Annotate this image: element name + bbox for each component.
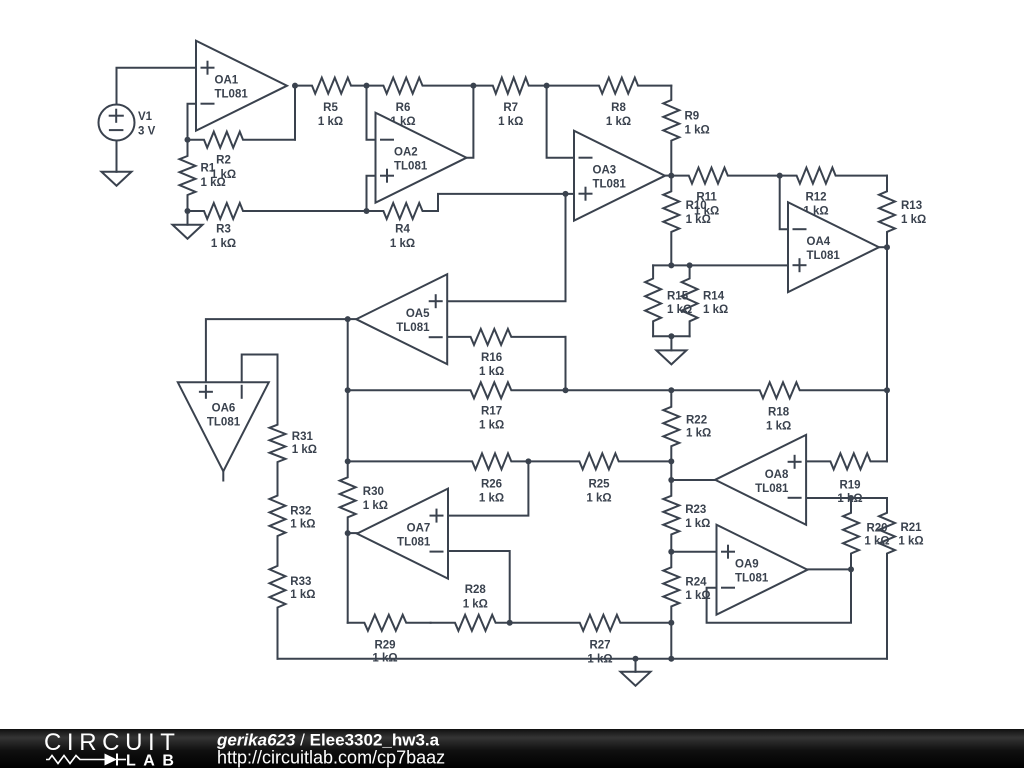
resistor R24 1k [663, 552, 710, 623]
op-amp OA7 TL081 [357, 489, 448, 579]
node left rail low bus [345, 458, 351, 464]
svg-text:TL081: TL081 [593, 179, 627, 191]
svg-text:R17: R17 [481, 405, 502, 417]
resistor R28 1k [431, 584, 510, 631]
resistor R20 1k [843, 498, 890, 569]
node OA9 output [848, 566, 854, 572]
svg-text:1 kΩ: 1 kΩ [901, 214, 926, 226]
footer bar [0, 729, 1024, 768]
wire OA1 inverting input to feedback node [188, 104, 197, 140]
svg-text:R32: R32 [290, 506, 311, 518]
wire OA5 output to OA6 noninverting input [206, 319, 348, 382]
ground below R14 R15 [656, 336, 686, 364]
svg-text:OA7: OA7 [407, 523, 431, 535]
svg-text:OA5: OA5 [406, 308, 430, 320]
svg-text:R3: R3 [216, 224, 231, 236]
wire OA5 output to left rail [348, 318, 357, 320]
node R20 top [848, 495, 854, 501]
svg-text:R6: R6 [396, 102, 411, 114]
resistor R27 1k [510, 615, 672, 666]
svg-text:1 kΩ: 1 kΩ [372, 653, 397, 665]
op-amp OA5 TL081 [356, 274, 447, 364]
resistor R23 1k [663, 480, 710, 552]
resistor R11 1k [671, 168, 779, 218]
resistor R26 1k [348, 453, 529, 504]
wire OA8 output stub [671, 479, 715, 481]
node R26-R25 [525, 458, 531, 464]
node OA7 output [345, 530, 351, 536]
svg-text:1 kΩ: 1 kΩ [479, 419, 504, 431]
voltage source V1 3V [99, 105, 156, 141]
svg-text:OA6: OA6 [212, 402, 236, 414]
resistor R9 1k [663, 86, 709, 176]
svg-text:R23: R23 [685, 504, 706, 516]
svg-text:R28: R28 [465, 584, 487, 596]
svg-text:OA8: OA8 [765, 469, 789, 481]
op-amp OA8 TL081 [715, 435, 806, 525]
svg-text:OA3: OA3 [593, 165, 617, 177]
resistor R31 1k [270, 355, 318, 479]
svg-text:R26: R26 [481, 479, 502, 491]
resistor R12 1k [780, 168, 887, 218]
node R14 top [687, 262, 693, 268]
wire OA9 noninverting input stub [671, 551, 716, 553]
wire OA9 output [808, 568, 852, 570]
node R11-R12 [777, 173, 783, 179]
resistor R7 1k [473, 78, 546, 128]
svg-text:1 kΩ: 1 kΩ [498, 116, 523, 128]
op-amp OA9 TL081 [717, 525, 808, 615]
svg-text:R18: R18 [768, 407, 790, 419]
node OA5 output [345, 316, 351, 322]
svg-text:V1: V1 [138, 111, 153, 123]
svg-text:R2: R2 [216, 154, 231, 166]
node R7-R8 [544, 83, 550, 89]
svg-text:OA1: OA1 [215, 75, 239, 87]
svg-text:1 kΩ: 1 kΩ [694, 206, 719, 218]
resistor R1 1k [180, 140, 226, 211]
resistor R30 1k [340, 461, 388, 533]
svg-text:R16: R16 [481, 352, 502, 364]
footer credit text [216, 731, 440, 750]
wire middle bus between R17 and R18 [566, 389, 672, 391]
svg-text:1 kΩ: 1 kΩ [898, 536, 923, 548]
wire V1 minus to ground [116, 141, 118, 172]
svg-text:R1: R1 [201, 162, 216, 174]
wire left rail upper segment [347, 319, 349, 461]
resistor R4 1k [367, 203, 439, 250]
node R5-R6 [364, 83, 370, 89]
resistor R2 1k [188, 132, 296, 181]
resistor R14 1k [682, 265, 729, 336]
wire OA8 inverting input line [806, 497, 887, 499]
svg-text:1 kΩ: 1 kΩ [201, 177, 226, 189]
svg-text:1 kΩ: 1 kΩ [363, 500, 388, 512]
svg-text:1 kΩ: 1 kΩ [587, 653, 612, 665]
svg-text:R24: R24 [685, 577, 707, 589]
svg-text:TL081: TL081 [396, 322, 430, 334]
svg-text:R5: R5 [323, 102, 338, 114]
svg-text:R11: R11 [696, 192, 717, 204]
node ground tap [633, 656, 639, 662]
svg-text:R14: R14 [703, 290, 725, 302]
resistor R25 1k [528, 453, 671, 504]
op-amp OA6 TL081 [178, 382, 269, 471]
svg-text:TL081: TL081 [207, 417, 241, 429]
wire OA6 inverting input to R31 [242, 355, 278, 383]
node left rail mid bus [345, 387, 351, 393]
svg-text:1 kΩ: 1 kΩ [685, 590, 710, 602]
wire bottom bus [278, 658, 888, 660]
node OA3 output [668, 173, 674, 179]
resistor R15 1k [645, 265, 692, 336]
svg-text:3 V: 3 V [138, 126, 156, 138]
svg-text:1 kΩ: 1 kΩ [686, 428, 711, 440]
resistor R10 1k [663, 176, 711, 266]
op-amp OA3 TL081 [574, 131, 665, 221]
node R6-R7 [470, 83, 476, 89]
wire OA7 output down to R29 line [347, 533, 349, 623]
svg-text:R21: R21 [900, 522, 922, 534]
node OA4 output [884, 244, 890, 250]
wire OA3 inverting input branch [547, 86, 574, 158]
svg-text:R30: R30 [363, 486, 384, 498]
resistor R3 1k [188, 203, 367, 250]
svg-text:OA4: OA4 [807, 236, 831, 248]
svg-text:R33: R33 [290, 576, 311, 588]
ground on bottom bus [621, 659, 651, 686]
resistor R19 1k [806, 453, 887, 505]
node R10 bottom [668, 262, 674, 268]
footer url text [217, 748, 445, 768]
svg-text:1 kΩ: 1 kΩ [318, 116, 343, 128]
node OA9 noninverting [668, 549, 674, 555]
node OA3 noninverting [563, 191, 569, 197]
node OA1 output [292, 83, 298, 89]
wire OA7 output stub [348, 532, 357, 534]
svg-text:1 kΩ: 1 kΩ [766, 420, 791, 432]
node OA8 output [668, 477, 674, 483]
resistor R6 1k [367, 78, 474, 128]
op-amp OA1 TL081 [196, 41, 287, 131]
wire R11-R12 node to OA4 inverting input [780, 176, 788, 230]
svg-text:R4: R4 [395, 224, 410, 236]
node R27-R24 [668, 620, 674, 626]
node R28-R27 [507, 620, 513, 626]
wire OA4 output to R13 [879, 246, 887, 248]
svg-text:1 kΩ: 1 kΩ [211, 238, 236, 250]
node R22 top [668, 387, 674, 393]
svg-text:1 kΩ: 1 kΩ [292, 444, 317, 456]
wire OA7 noninverting input up to R25-R26 bus [448, 461, 528, 515]
svg-text:R8: R8 [611, 102, 626, 114]
svg-text:1 kΩ: 1 kΩ [479, 366, 504, 378]
wire center rail R22-R23 segment [670, 461, 672, 480]
wire V1 plus to OA1 noninverting input [117, 68, 197, 105]
wire OA7 inverting input down to R28-R27 node [448, 551, 510, 623]
svg-text:1 kΩ: 1 kΩ [463, 599, 488, 611]
svg-text:1 kΩ: 1 kΩ [685, 518, 710, 530]
wire right rail mid bus to R19 [886, 390, 888, 461]
op-amp OA4 TL081 [788, 202, 879, 292]
wire OA3 noninverting node down to OA5 noninverting input [447, 194, 565, 301]
node OA1 feedback [185, 137, 191, 143]
svg-text:TL081: TL081 [215, 89, 249, 101]
wire center rail to bottom bus [670, 623, 672, 659]
svg-text:1 kΩ: 1 kΩ [703, 304, 728, 316]
wire OA4 output down right rail [886, 247, 888, 390]
node R3-R4 [364, 208, 370, 214]
wire OA4 noninverting input line [653, 264, 788, 266]
wire R16 down to middle bus [565, 337, 567, 390]
wire OA1 output feedback drop [294, 86, 296, 140]
resistor R21 1k [879, 498, 924, 659]
resistor R18 1k [671, 382, 887, 432]
wire OA2 inverting input branch [367, 86, 376, 140]
svg-text:R22: R22 [686, 414, 707, 426]
svg-text:TL081: TL081 [394, 161, 428, 173]
svg-text:TL081: TL081 [735, 573, 769, 585]
wire R4 to OA3 noninverting input [438, 194, 574, 211]
resistor R33 1k [270, 551, 316, 659]
svg-text:R9: R9 [685, 110, 700, 122]
op-amp OA2 TL081 [376, 113, 467, 203]
ground below R1 R3 node [173, 211, 203, 239]
node R16-R17 [563, 387, 569, 393]
svg-text:R7: R7 [503, 102, 518, 114]
wire OA9 inverting feedback loop [707, 569, 851, 622]
wire OA6 output stub [222, 471, 224, 480]
node R1-R3 ground [185, 208, 191, 214]
CircuitLab logo [44, 729, 181, 768]
svg-text:1 kΩ: 1 kΩ [479, 493, 504, 505]
resistor R13 1k [879, 176, 926, 248]
svg-text:TL081: TL081 [807, 250, 841, 262]
resistor R32 1k [270, 479, 316, 551]
svg-text:R13: R13 [901, 200, 922, 212]
svg-text:OA9: OA9 [735, 559, 759, 571]
svg-text:OA2: OA2 [394, 147, 418, 159]
svg-text:R27: R27 [589, 640, 610, 652]
resistor R5 1k [295, 78, 367, 128]
svg-text:LAB: LAB [126, 753, 181, 768]
svg-text:R31: R31 [292, 431, 314, 443]
svg-text:R12: R12 [805, 192, 826, 204]
node center rail bottom [668, 656, 674, 662]
resistor R16 1k [447, 329, 565, 378]
ground below V1 [102, 141, 132, 186]
svg-text:1 kΩ: 1 kΩ [290, 589, 315, 601]
wire OA3 output stub [665, 175, 671, 177]
svg-text:R29: R29 [374, 640, 395, 652]
resistor R29 1k [348, 615, 431, 665]
resistor R22 1k [663, 390, 711, 461]
svg-text:TL081: TL081 [397, 537, 431, 549]
svg-text:1 kΩ: 1 kΩ [586, 493, 611, 505]
wire OA2 noninverting input branch [367, 176, 376, 211]
svg-text:1 kΩ: 1 kΩ [290, 519, 315, 531]
node right rail mid bus [884, 387, 890, 393]
node R14-R15 ground [668, 333, 674, 339]
svg-text:1 kΩ: 1 kΩ [390, 238, 415, 250]
svg-text:R25: R25 [588, 479, 610, 491]
node R22 bottom [668, 458, 674, 464]
svg-text:TL081: TL081 [755, 483, 789, 495]
svg-text:R15: R15 [667, 290, 689, 302]
svg-text:1 kΩ: 1 kΩ [606, 116, 631, 128]
wire R14 R15 bottom tie [653, 335, 690, 337]
svg-text:1 kΩ: 1 kΩ [685, 124, 710, 136]
resistor R17 1k [348, 382, 566, 431]
resistor R8 1k [547, 78, 672, 128]
svg-text:http://circuitlab.com/cp7baaz: http://circuitlab.com/cp7baaz [217, 748, 445, 768]
svg-text:R19: R19 [839, 480, 860, 492]
wire OA2 output to top bus [467, 86, 474, 158]
